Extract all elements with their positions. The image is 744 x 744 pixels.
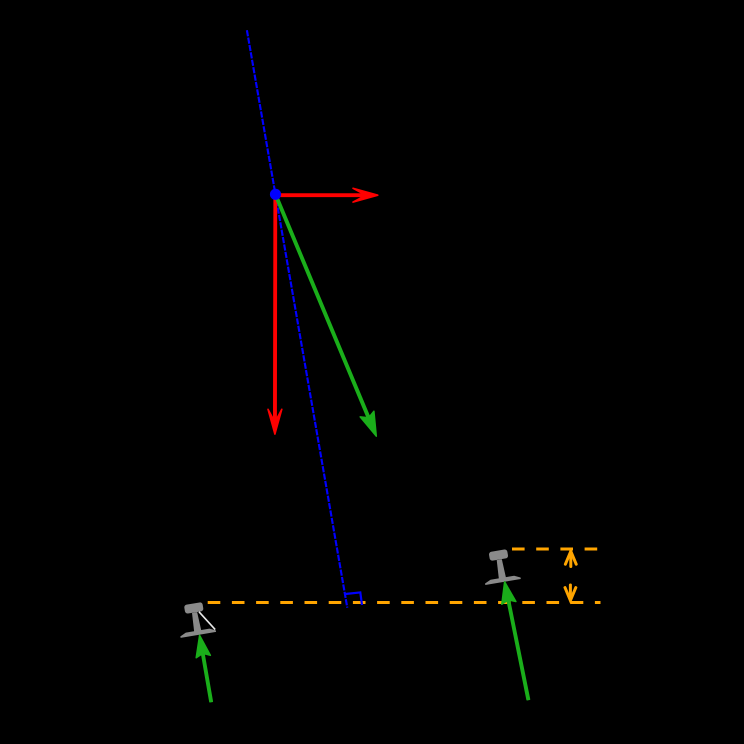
force arrow red horizontal (centripetal component) <box>277 188 378 202</box>
wire: white flange line on left rail <box>199 612 215 630</box>
node superelevation dimension arrow up <box>565 551 576 566</box>
normal force arrow at right rail <box>502 582 530 700</box>
node right-angle marker <box>345 592 362 605</box>
wire: upper orange dashed reference line (top of right rail) <box>512 548 601 551</box>
wire: blue dashed plumb line <box>247 30 347 608</box>
rail (left, lower) <box>175 601 216 638</box>
wire: lower orange dashed reference line (top of left rail) <box>208 601 601 604</box>
node superelevation dimension arrow down <box>565 585 576 601</box>
force arrow green resultant <box>275 196 376 437</box>
normal force arrow at left rail <box>196 635 212 702</box>
node: blue pivot dot <box>270 189 281 200</box>
force arrow red vertical (gravity component) <box>268 196 282 435</box>
rail (right, elevated) <box>480 548 521 585</box>
